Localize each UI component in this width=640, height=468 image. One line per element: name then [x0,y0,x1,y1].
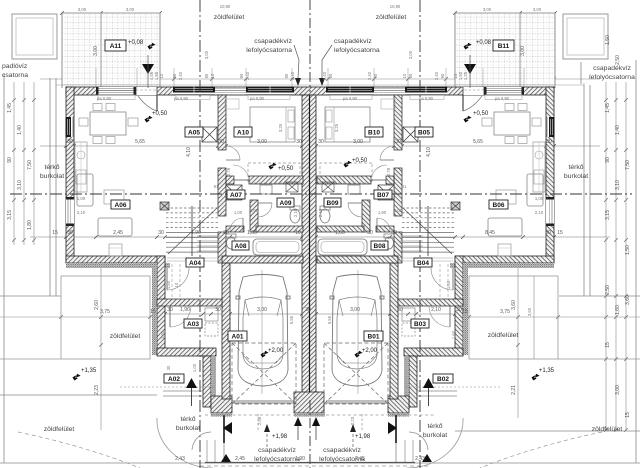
A04 threshold to stair hall [167,257,222,259]
basin A09 [348,185,360,194]
svg-text:+2,00: +2,00 [362,348,378,354]
left margin dimension chains [14,82,34,245]
svg-text:1,45: 1,45 [605,103,611,113]
svg-text:2,45: 2,45 [235,456,245,462]
svg-text:pa 0,90: pa 0,90 [250,96,265,101]
svg-text:burkolat: burkolat [423,432,447,439]
window top wall dark [246,87,294,96]
svg-text:30: 30 [456,307,462,313]
svg-text:90: 90 [284,73,289,78]
svg-text:B03: B03 [414,321,426,328]
kitchen counter [75,142,87,192]
garden vertical dimension lines [100,268,102,430]
svg-text:2,23: 2,23 [350,416,355,425]
svg-text:91: 91 [402,184,407,189]
svg-text:90: 90 [239,73,244,78]
A09 door arc [348,202,362,204]
A08 door arc [376,218,378,232]
car [330,275,384,387]
svg-text:90: 90 [373,73,378,78]
svg-text:10: 10 [174,282,179,287]
elevation flag +1,35 [531,373,540,382]
wing bottom wall [455,256,554,263]
svg-text:30: 30 [218,139,224,145]
elevation flag +0,50 [144,115,153,124]
room label B09 [324,198,341,207]
svg-text:30: 30 [546,139,552,145]
porch arc [407,418,463,468]
wardrobe A10 [248,163,300,183]
svg-text:90: 90 [440,73,445,78]
driveway arrow dashed [266,432,268,447]
room label A04 [186,258,204,267]
staircase [402,206,454,256]
walkway edge lines left [206,440,208,462]
garage top wall [222,256,303,263]
svg-text:+1,35: +1,35 [539,368,555,374]
svg-text:5,55: 5,55 [289,315,294,324]
svg-text:+2,00: +2,00 [268,348,284,354]
svg-text:A06: A06 [115,202,127,209]
room label A03 [184,319,202,328]
svg-text:90: 90 [7,157,13,163]
lower block left wall [455,256,463,355]
svg-text:1,90: 1,90 [378,210,387,215]
svg-text:csatorna: csatorna [2,72,28,79]
svg-text:pa 0,90: pa 0,90 [495,96,510,101]
svg-text:A07: A07 [230,192,242,199]
wall A07/A08 [376,226,394,232]
shaft at hall [378,185,394,200]
svg-text:1,40: 1,40 [615,125,621,135]
svg-text:+1,98: +1,98 [355,434,371,440]
svg-text:+0,50: +0,50 [473,111,489,117]
garage left wall [222,263,230,399]
svg-text:3,00: 3,00 [350,307,360,313]
top facade wall [66,87,554,95]
window left wall light [66,197,74,226]
room label A07 [227,190,245,199]
eaves line above facade [56,84,584,86]
svg-text:3,00: 3,00 [533,7,542,12]
svg-text:1,50: 1,50 [166,280,171,289]
svg-text:2,50: 2,50 [605,285,611,295]
interior wall below A10 [386,176,394,184]
svg-text:zöldfelület: zöldfelület [44,426,75,433]
svg-text:2,50: 2,50 [615,55,621,65]
garage front corner wall [388,396,409,413]
svg-text:csapadékvíz: csapadékvíz [593,65,631,72]
svg-text:3,00: 3,00 [615,385,621,395]
svg-text:csapadékvíz: csapadékvíz [323,447,361,454]
window left wall dark [547,117,555,137]
center property line [309,0,311,92]
basin A09 [260,185,272,194]
svg-text:2,10: 2,10 [431,307,441,313]
svg-text:lefolyócsatorna: lefolyócsatorna [589,74,635,81]
kitchen counter [533,142,545,192]
side arrow left [223,415,225,443]
svg-text:3,60: 3,60 [625,295,631,305]
elevation flag +2,00 [354,350,363,359]
svg-text:zöldfelület: zöldfelület [376,14,407,21]
svg-text:B06: B06 [493,202,505,209]
svg-text:2,10: 2,10 [318,208,323,217]
svg-text:2,23: 2,23 [94,385,100,395]
entry arrow left [186,378,197,388]
svg-text:2,10: 2,10 [535,210,544,215]
svg-text:pa 0,90: pa 0,90 [97,96,112,101]
section line right [419,0,421,468]
garage dashed cross [232,343,296,404]
svg-text:1,40: 1,40 [17,125,23,135]
svg-text:1,45: 1,45 [7,103,13,113]
sofa [527,174,543,206]
svg-text:90: 90 [328,73,333,78]
svg-text:10,90: 10,90 [220,4,231,9]
svg-text:2,40: 2,40 [434,71,439,80]
svg-text:pa 0,90: pa 0,90 [343,96,358,101]
svg-text:+1,98: +1,98 [272,434,288,440]
post [160,202,169,210]
driveway dashed arc [18,432,140,468]
room label B05 [415,127,433,137]
svg-text:10,90: 10,90 [390,4,401,9]
svg-text:5,55: 5,55 [327,315,332,324]
svg-text:2,43: 2,43 [415,456,425,462]
terrace down arrow right [464,64,476,74]
svg-text:1,60: 1,60 [451,330,456,339]
right unit geometry mirrored [317,87,602,468]
svg-text:térkő: térkő [180,416,195,423]
svg-text:3,00: 3,00 [78,7,87,12]
terrace door [463,87,484,95]
room label A01 [228,331,247,341]
wing bottom wall [66,256,165,263]
svg-text:1,00: 1,00 [335,230,345,236]
party wall centre line [309,95,311,399]
A03 door arc [449,306,451,327]
svg-text:30: 30 [397,307,403,313]
terrace down arrow left [142,64,154,74]
svg-text:2,40: 2,40 [178,71,183,80]
svg-text:B08: B08 [374,243,386,250]
room label B11 [493,40,514,51]
svg-text:15: 15 [462,309,468,315]
dashed apron line [205,414,435,416]
svg-text:30: 30 [215,307,221,313]
svg-text:15: 15 [52,230,58,236]
svg-text:3,00: 3,00 [93,46,99,56]
window sills interior [98,95,290,109]
window top wall dark [405,87,447,96]
party wall [302,95,316,399]
room label B03 [411,319,429,328]
svg-text:15: 15 [557,230,563,236]
svg-text:3,15: 3,15 [7,210,13,220]
room label A10 [234,127,252,137]
lower block left wall [157,256,165,355]
svg-text:30: 30 [167,307,173,313]
terrace B11 grid [455,13,555,88]
upper chain dimension line [40,78,600,80]
room label A05 [185,127,203,137]
svg-text:3,60: 3,60 [527,307,532,316]
svg-text:2,78: 2,78 [386,167,391,176]
room label B02 [433,374,453,383]
svg-text:zöldfelület: zöldfelület [214,14,245,21]
window top wall dark [326,87,374,96]
bathtub A09 [253,239,302,255]
room label B04 [414,258,432,267]
svg-text:A09: A09 [280,200,292,207]
svg-text:4,10: 4,10 [186,147,192,157]
svg-text:30: 30 [395,139,401,145]
svg-text:zöldfelület: zöldfelület [592,426,623,433]
svg-text:B09: B09 [327,200,339,207]
elevation flag +0,50 [343,160,352,169]
svg-text:2,60: 2,60 [94,300,100,310]
svg-text:B02: B02 [437,376,449,383]
A03 fixtures [205,308,218,321]
room label A08 [232,241,249,250]
wall A07/A09 [250,200,258,232]
room label B10 [365,127,383,137]
svg-text:15: 15 [605,342,611,348]
window top wall light [96,87,136,95]
horizontal section line [10,193,632,195]
svg-text:15: 15 [625,412,631,418]
bathtub A09 [318,239,367,255]
svg-text:A01: A01 [232,333,244,340]
svg-text:B04: B04 [417,260,429,267]
elevation flag +0,50 [463,115,472,124]
porch step wall [404,348,463,356]
svg-text:1,25: 1,25 [463,71,468,80]
svg-text:B05: B05 [418,129,430,136]
svg-text:1,90: 1,90 [191,230,201,236]
svg-text:1,60: 1,60 [160,330,165,339]
svg-text:30: 30 [391,230,397,236]
svg-text:1,90: 1,90 [180,307,190,313]
svg-text:30: 30 [305,307,311,313]
lower stair steps [400,236,423,251]
center pier garage doors [294,392,324,413]
svg-text:3,10: 3,10 [615,180,621,190]
svg-text:30: 30 [545,230,551,236]
driveway arrow dashed [352,432,354,447]
window left wall light [546,197,554,226]
porch door arc left [192,432,211,450]
room label A02 [164,374,184,383]
garage left wall [390,263,398,399]
car [236,275,290,387]
svg-text:90: 90 [605,157,611,163]
svg-text:2,43: 2,43 [175,456,185,462]
porch steps [417,390,457,392]
porch arc [157,418,213,468]
shaft A09 [322,182,334,192]
svg-text:30: 30 [367,230,373,236]
svg-text:A10: A10 [237,129,249,136]
garage door arrows [294,417,302,426]
A10 door arc [234,179,249,181]
A04 door arc [452,268,454,290]
garage door opening [232,401,294,403]
post [451,202,460,210]
svg-text:30: 30 [67,230,73,236]
svg-text:térkő: térkő [568,164,583,171]
svg-text:zöldfelület: zöldfelület [110,333,141,340]
garage door opening [326,401,388,403]
svg-text:90: 90 [204,73,209,78]
svg-text:30: 30 [166,365,171,370]
A04 threshold to stair hall [398,257,453,259]
interior wall living/hall [394,95,402,150]
svg-text:+0,08: +0,08 [476,40,492,46]
bottom arrow left [221,454,231,462]
svg-text:1,50: 1,50 [605,35,611,45]
svg-text:1,60: 1,60 [615,305,621,315]
svg-text:pa 0,90: pa 0,90 [419,96,434,101]
garage front corner wall [211,396,232,413]
svg-text:+0,50: +0,50 [152,111,168,117]
top dimension ticks [60,11,64,15]
garage centre lines [261,270,263,394]
svg-text:15: 15 [150,309,156,315]
svg-text:1,90: 1,90 [295,456,305,462]
shaft at hall [226,185,242,200]
toilet A08 [227,237,236,249]
svg-text:1,00: 1,00 [192,363,197,372]
svg-text:térkő: térkő [427,423,442,430]
window top wall light [484,87,524,95]
dashed bottom strip [200,465,430,467]
bottom walkway edge darker [205,462,415,464]
room label B08 [371,241,388,250]
bed A10 [325,107,370,142]
staircase [166,206,218,256]
svg-text:5,65: 5,65 [135,139,145,145]
glazed band next to door [215,88,246,95]
svg-text:2,40: 2,40 [367,71,372,80]
bed A10 [250,107,295,142]
svg-text:térkő: térkő [44,164,59,171]
svg-text:1,00: 1,00 [535,196,544,201]
interior dimension line y237 [30,236,610,238]
interior wall below A10 [226,176,234,184]
svg-text:1,00: 1,00 [234,210,243,215]
svg-text:A03: A03 [187,321,199,328]
garage top wall [317,256,398,263]
svg-text:1,00: 1,00 [247,230,257,236]
elevation flag +1,35 [72,373,81,382]
svg-text:2,45: 2,45 [113,230,123,236]
svg-text:3,25: 3,25 [278,123,283,132]
svg-text:+0,50: +0,50 [352,158,368,164]
interior dimension line y146 [40,145,600,147]
chimney shaft [403,127,418,142]
walkway edge lines right [404,440,406,462]
svg-text:+1,35: +1,35 [81,368,97,374]
toilet A08 [385,237,394,249]
window sills interior [330,95,522,109]
svg-text:burkolat: burkolat [40,173,64,180]
svg-text:A11: A11 [110,43,122,50]
A09 door arc [258,202,272,204]
svg-text:2,21: 2,21 [511,385,517,395]
svg-text:7,50: 7,50 [27,160,33,170]
sofa [77,174,93,206]
svg-text:3,60: 3,60 [511,300,517,310]
svg-text:3,75: 3,75 [100,309,110,315]
A08 door arc [242,218,244,232]
A04 closet dashed [171,264,173,299]
svg-text:10: 10 [402,73,407,78]
garden rectangles zoldfelulet [0,276,640,359]
svg-text:csapadékvíz: csapadékvíz [258,447,296,454]
driveway dashed arc [480,432,602,468]
svg-text:1,80: 1,80 [27,220,33,230]
cabinet at wing wall [498,244,511,256]
A04 door arc [166,268,168,290]
chimney shaft [202,127,217,142]
room label B06 [489,200,508,209]
svg-text:30: 30 [296,139,302,145]
A04/A03 wall [398,299,463,306]
svg-text:A05: A05 [188,129,200,136]
svg-text:3,25: 3,25 [334,123,339,132]
svg-text:+0,08: +0,08 [128,40,144,46]
toilet A09 [320,209,330,223]
svg-text:B07: B07 [377,192,389,199]
svg-text:3,00: 3,00 [520,46,526,56]
svg-text:1,50: 1,50 [625,245,631,255]
left unit geometry [18,87,303,468]
wall A07/A09 [362,200,370,232]
svg-text:1,90: 1,90 [250,208,259,213]
svg-text:3,00: 3,00 [483,7,492,12]
right margin dimension chains [606,82,626,430]
svg-text:90: 90 [408,73,413,78]
room label A11 [105,40,126,51]
dining table [90,112,126,135]
svg-text:3,00: 3,00 [408,50,413,59]
A04 closet dashed [447,264,449,299]
elevation flag +0,08 [463,42,472,51]
left outer wall [546,87,554,263]
garage dashed cross [324,343,388,404]
svg-text:B10: B10 [368,129,380,136]
A03 door arc [169,306,171,327]
svg-text:1,00: 1,00 [77,196,86,201]
svg-text:2,78: 2,78 [226,167,231,176]
dining table [494,112,530,135]
svg-text:burkolat: burkolat [564,173,588,180]
svg-text:A04: A04 [189,260,201,267]
svg-text:2,40: 2,40 [245,71,250,80]
svg-text:5,65: 5,65 [473,139,483,145]
svg-text:A08: A08 [235,243,247,250]
entry arrow right [423,378,434,388]
svg-text:csapadékvíz: csapadékvíz [254,38,292,45]
lower stair steps [197,236,220,251]
elevation flag +2,00 [260,350,269,359]
svg-text:91: 91 [214,184,219,189]
side arrow right [395,415,397,443]
svg-text:2,40: 2,40 [290,71,295,80]
svg-text:30: 30 [318,139,324,145]
